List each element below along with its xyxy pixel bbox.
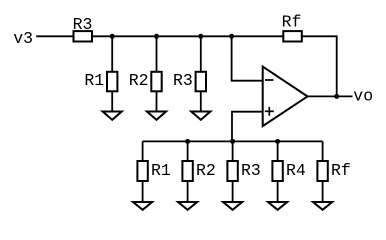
junction R4 bottom bbox=[275, 139, 280, 144]
svg-text:R3: R3 bbox=[73, 15, 93, 34]
wire top rail R3 to Rf bbox=[92, 35, 283, 37]
junction R1 top bbox=[110, 34, 115, 39]
resistor R2 (bottom) bbox=[182, 141, 215, 202]
svg-text:vo: vo bbox=[353, 87, 373, 106]
ground (R3 bottom) bbox=[223, 202, 242, 210]
resistor R1 (top shunt) bbox=[84, 36, 117, 111]
svg-text:Rf: Rf bbox=[331, 161, 351, 180]
svg-text:Rf: Rf bbox=[282, 13, 302, 32]
resistor R1 (bottom) bbox=[137, 141, 171, 202]
wire op-amp output to vo bbox=[308, 95, 353, 97]
junction R3 bottom / noninverting bbox=[230, 139, 235, 144]
svg-text:v3: v3 bbox=[13, 29, 33, 48]
wire v3 to R3 bbox=[36, 35, 73, 37]
resistor R2 (top shunt) bbox=[129, 36, 162, 111]
ground (R2 top) bbox=[147, 112, 166, 120]
junction R2 bottom bbox=[185, 139, 190, 144]
resistor R3 (series input, horizontal) bbox=[73, 15, 93, 42]
ground (Rf bottom) bbox=[313, 202, 332, 210]
resistor R3 (top shunt) bbox=[173, 36, 206, 111]
svg-text:R2: R2 bbox=[196, 161, 216, 180]
junction output node bbox=[334, 94, 339, 99]
op-amp U1 bbox=[263, 67, 308, 127]
junction R3 top bbox=[198, 34, 203, 39]
ground (R1 bottom) bbox=[133, 202, 152, 210]
wire noninverting input bbox=[232, 112, 263, 142]
resistor R4 (bottom) bbox=[272, 141, 306, 202]
wire bottom rail bbox=[143, 140, 323, 142]
svg-text:R1: R1 bbox=[84, 71, 104, 90]
wire inverting node down bbox=[232, 36, 263, 80]
resistor Rf (feedback, horizontal) bbox=[282, 13, 302, 42]
wire Rf to output corner bbox=[302, 36, 337, 96]
junction inverting node bbox=[229, 34, 234, 39]
svg-text:R4: R4 bbox=[286, 161, 306, 180]
svg-text:R3: R3 bbox=[173, 71, 193, 90]
svg-text:R3: R3 bbox=[241, 161, 261, 180]
svg-text:R1: R1 bbox=[151, 161, 171, 180]
ground (R2 bottom) bbox=[178, 202, 197, 210]
junction R2 top bbox=[154, 34, 159, 39]
resistor Rf (bottom) bbox=[317, 141, 350, 202]
resistor R3 (bottom) bbox=[227, 141, 260, 202]
ground (R3 top) bbox=[191, 112, 210, 120]
ground (R1 top) bbox=[103, 112, 122, 120]
svg-text:R2: R2 bbox=[129, 71, 149, 90]
ground (R4 bottom) bbox=[268, 202, 287, 210]
